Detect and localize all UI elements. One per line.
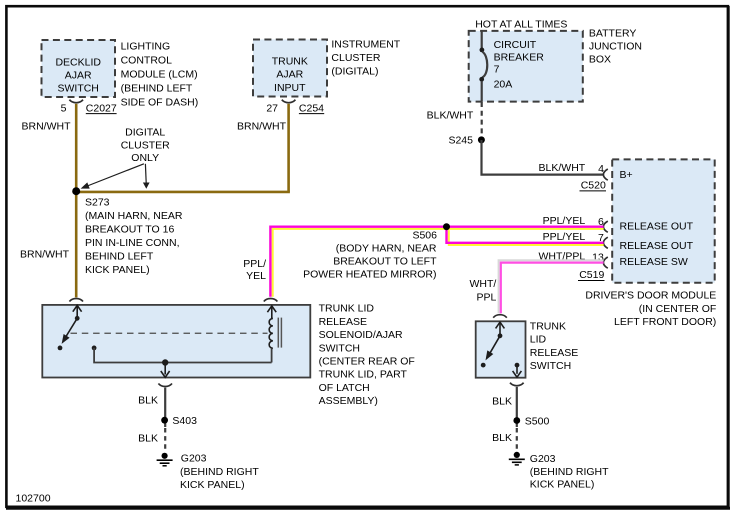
svg-text:20A: 20A (494, 79, 513, 91)
svg-text:BREAKER: BREAKER (494, 51, 545, 63)
trunk lid release switch box (476, 321, 526, 377)
ground G203 right (509, 452, 609, 491)
wire WHT/PPL white stripe (499, 260, 604, 313)
svg-text:BOX: BOX (589, 54, 611, 66)
svg-text:BRN/WHT: BRN/WHT (237, 121, 287, 133)
svg-text:BATTERY: BATTERY (589, 28, 636, 40)
svg-text:KICK PANEL): KICK PANEL) (85, 264, 150, 276)
svg-text:102700: 102700 (16, 492, 51, 504)
wire PPL/YEL branch yellow stripe (449, 230, 604, 245)
svg-text:KICK PANEL): KICK PANEL) (180, 479, 245, 491)
wire BRN/WHT horizontal to S273 (75, 191, 290, 194)
trunk lid release switch label (530, 321, 578, 373)
svg-text:TRUNK: TRUNK (272, 55, 308, 67)
connector C2027 pin 5 (61, 100, 117, 115)
circuit breaker 7 symbol (479, 32, 487, 102)
svg-text:DECKLID: DECKLID (55, 57, 101, 69)
svg-text:TRUNK LID: TRUNK LID (319, 303, 375, 315)
trunk ajar input box (instrument cluster) (253, 40, 327, 97)
svg-text:BLK: BLK (138, 432, 158, 444)
svg-text:G203: G203 (530, 453, 556, 465)
wire WHT/PPL magenta (501, 263, 604, 314)
connector above solenoid box left (69, 299, 83, 302)
svg-text:OF LATCH: OF LATCH (319, 382, 370, 394)
wire BLK/WHT dashed fusible segment (481, 102, 483, 136)
svg-text:PIN IN-LINE CONN,: PIN IN-LINE CONN, (85, 237, 180, 249)
svg-text:ASSEMBLY): ASSEMBLY) (319, 395, 378, 407)
label PPL/YEL vertical wire (243, 258, 266, 282)
svg-text:BLK: BLK (138, 394, 158, 406)
connector below solenoid box (158, 384, 172, 387)
svg-text:SIDE OF DASH): SIDE OF DASH) (121, 97, 199, 109)
svg-text:S506: S506 (412, 229, 437, 241)
svg-text:(BEHIND RIGHT: (BEHIND RIGHT (530, 466, 609, 478)
svg-text:S245: S245 (448, 134, 473, 146)
svg-text:PPL/YEL: PPL/YEL (543, 215, 586, 227)
svg-text:TRUNK LID, PART: TRUNK LID, PART (319, 369, 408, 381)
svg-text:JUNCTION: JUNCTION (589, 41, 642, 53)
release switch arrow down to exit (513, 365, 522, 377)
wire BLK/WHT to B+ pin 4 (482, 140, 604, 175)
svg-text:(DIGITAL): (DIGITAL) (331, 66, 378, 78)
release switch blade (486, 336, 501, 361)
svg-text:PPL/YEL: PPL/YEL (543, 231, 586, 243)
svg-text:BRN/WHT: BRN/WHT (22, 120, 72, 132)
wire BLK to S500 (516, 387, 518, 427)
svg-text:BLK/WHT: BLK/WHT (539, 162, 586, 174)
connector above release switch box (493, 315, 507, 318)
svg-text:INPUT: INPUT (274, 82, 306, 94)
driver's door module box (612, 159, 715, 282)
svg-text:LIGHTING: LIGHTING (121, 41, 171, 53)
svg-text:BREAKOUT TO LEFT: BREAKOUT TO LEFT (333, 255, 437, 267)
splice S245 (448, 134, 484, 146)
svg-text:CONTROL: CONTROL (121, 55, 172, 67)
splice S506 (303, 223, 450, 280)
svg-text:BRN/WHT: BRN/WHT (20, 249, 70, 261)
svg-text:SWITCH: SWITCH (57, 83, 98, 95)
svg-text:RELEASE OUT: RELEASE OUT (620, 221, 694, 233)
svg-text:4: 4 (598, 163, 604, 175)
svg-text:BLK: BLK (492, 395, 512, 407)
svg-text:LEFT FRONT DOOR): LEFT FRONT DOOR) (614, 316, 716, 328)
wire PPL/YEL yellow stripe (273, 229, 604, 297)
splice S403 (161, 415, 197, 427)
svg-text:RELEASE SW: RELEASE SW (620, 256, 688, 268)
svg-text:(IN CENTER OF: (IN CENTER OF (639, 303, 717, 315)
svg-text:(BEHIND RIGHT: (BEHIND RIGHT (180, 466, 259, 478)
svg-text:C254: C254 (299, 102, 324, 114)
wire BLK dashed to G203 (164, 428, 166, 451)
connector C254 pin 27 (266, 100, 324, 115)
battery junction box label (589, 28, 642, 66)
ajar switch branch contact (92, 346, 97, 351)
svg-text:27: 27 (266, 102, 278, 114)
digital cluster only note (121, 127, 170, 165)
svg-text:ONLY: ONLY (131, 152, 159, 164)
connector above solenoid box coil (264, 299, 278, 302)
arrow to S273 splice (81, 164, 144, 189)
wire BLK dashed to G203 right (516, 428, 518, 450)
svg-text:BLK/WHT: BLK/WHT (427, 110, 474, 122)
trunk lid release solenoid/ajar switch box (42, 305, 310, 378)
solenoid box label (319, 303, 415, 407)
ajar switch upper contact (75, 316, 80, 321)
label WHT/PPL vertical wire (469, 278, 496, 304)
splice S500 (513, 416, 549, 428)
svg-text:PPL: PPL (476, 292, 496, 304)
svg-text:AJAR: AJAR (276, 69, 303, 81)
svg-text:TRUNK: TRUNK (530, 321, 566, 333)
internal arrow down to exit (161, 363, 170, 378)
connector below release switch box (510, 383, 524, 386)
battery junction box (469, 31, 583, 102)
lighting control module label (121, 41, 199, 109)
svg-text:CLUSTER: CLUSTER (331, 52, 380, 64)
arrow to BRN/WHT wire (143, 164, 150, 189)
svg-text:WHT/: WHT/ (469, 278, 496, 290)
svg-text:C520: C520 (581, 180, 606, 192)
svg-text:HOT AT ALL TIMES: HOT AT ALL TIMES (475, 18, 567, 30)
internal wire to ground exit (94, 348, 272, 363)
svg-text:C519: C519 (579, 269, 604, 281)
svg-text:G203: G203 (181, 453, 207, 465)
release switch output contact (515, 363, 520, 368)
svg-text:7: 7 (494, 64, 500, 76)
svg-text:DIGITAL: DIGITAL (125, 127, 165, 139)
svg-text:C2027: C2027 (86, 102, 117, 114)
svg-text:(BODY HARN, NEAR: (BODY HARN, NEAR (336, 243, 437, 255)
release switch lower contact (481, 363, 486, 368)
svg-text:RELEASE: RELEASE (319, 316, 367, 328)
svg-text:S500: S500 (525, 416, 550, 428)
wire PPL/YEL branch magenta (447, 227, 604, 243)
svg-text:INSTRUMENT: INSTRUMENT (331, 39, 400, 51)
release switch upper contact (498, 333, 503, 338)
splice S273 (72, 187, 183, 276)
driver's door module label (585, 290, 716, 329)
ground G203 left (157, 453, 260, 491)
svg-text:YEL: YEL (246, 270, 266, 282)
svg-text:SWITCH: SWITCH (319, 342, 360, 354)
mechanical link dashed (71, 332, 268, 334)
wire PPL/YEL magenta (270, 227, 603, 297)
release switch arrow up (496, 322, 505, 336)
svg-text:S273: S273 (85, 196, 110, 208)
svg-text:DRIVER'S DOOR MODULE: DRIVER'S DOOR MODULE (585, 290, 716, 302)
connector C519 pin 13 (578, 251, 608, 281)
internal junction dot (162, 359, 168, 365)
svg-text:S403: S403 (172, 415, 197, 427)
svg-text:CIRCUIT: CIRCUIT (494, 39, 537, 51)
ajar switch arrow up (73, 305, 82, 318)
ajar switch lower contact (58, 346, 63, 351)
connector pin 7 (598, 232, 608, 249)
svg-text:BLK: BLK (492, 432, 512, 444)
ajar switch blade (62, 318, 78, 344)
wire BRN/WHT vertical from trunk ajar input (287, 104, 290, 192)
svg-text:(CENTER REAR OF: (CENTER REAR OF (319, 356, 415, 368)
svg-text:5: 5 (61, 102, 67, 114)
svg-text:(BEHIND LEFT: (BEHIND LEFT (121, 83, 193, 95)
svg-text:POWER HEATED MIRROR): POWER HEATED MIRROR) (303, 268, 436, 280)
svg-text:B+: B+ (620, 169, 633, 181)
instrument cluster label (331, 39, 400, 78)
svg-text:RELEASE: RELEASE (530, 347, 578, 359)
svg-text:(MAIN HARN, NEAR: (MAIN HARN, NEAR (85, 210, 183, 222)
svg-text:KICK PANEL): KICK PANEL) (530, 479, 595, 491)
wire BRN/WHT vertical from decklid switch (75, 104, 78, 298)
svg-text:BEHIND LEFT: BEHIND LEFT (85, 250, 154, 262)
solenoid coil (267, 306, 281, 363)
svg-text:BREAKOUT TO 16: BREAKOUT TO 16 (85, 223, 174, 235)
svg-text:PPL/: PPL/ (243, 258, 266, 270)
svg-text:MODULE (LCM): MODULE (LCM) (121, 69, 198, 81)
connector C520 pin 4 (580, 163, 608, 192)
svg-text:CLUSTER: CLUSTER (121, 140, 170, 152)
wire BLK to S403 (164, 388, 166, 427)
connector pin 6 (598, 216, 608, 232)
svg-text:SOLENOID/AJAR: SOLENOID/AJAR (319, 329, 403, 341)
svg-text:RELEASE OUT: RELEASE OUT (620, 240, 694, 252)
svg-text:AJAR: AJAR (65, 70, 92, 82)
decklid ajar switch box (LCM) (42, 40, 116, 97)
svg-text:LID: LID (530, 334, 547, 346)
svg-text:SWITCH: SWITCH (530, 360, 571, 372)
